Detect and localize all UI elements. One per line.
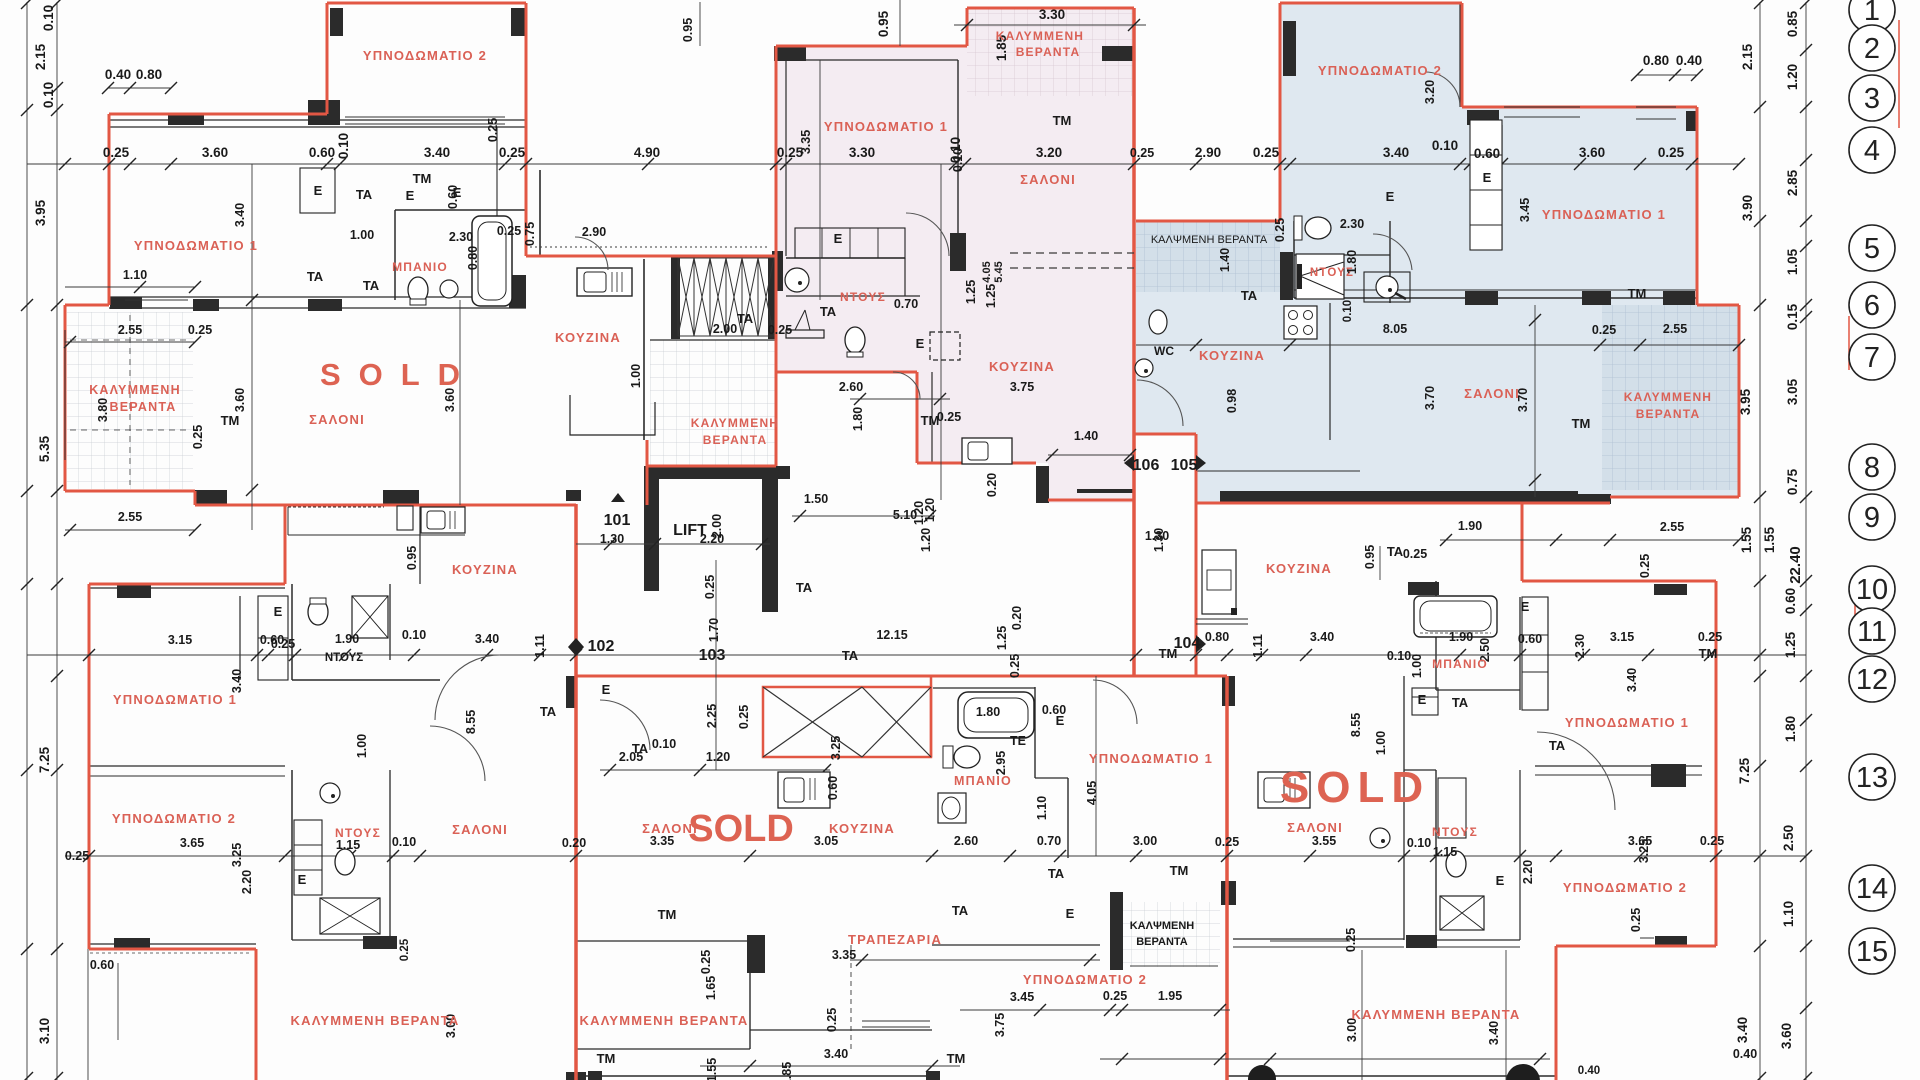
svg-text:ΥΠΝΟΔΩΜΑΤΙΟ 1: ΥΠΝΟΔΩΜΑΤΙΟ 1 <box>113 692 237 707</box>
blue closet wall <box>1501 125 1503 250</box>
svg-text:ΣΑΛΟΝΙ: ΣΑΛΟΝΙ <box>1464 386 1520 401</box>
svg-text:1.11: 1.11 <box>1251 634 1265 658</box>
svg-text:3.40: 3.40 <box>1487 1021 1501 1045</box>
svg-text:0.80: 0.80 <box>136 67 162 82</box>
svg-text:1.40: 1.40 <box>1218 248 1232 272</box>
svg-text:0.25: 0.25 <box>1253 145 1280 160</box>
svg-text:E: E <box>1496 873 1505 888</box>
svg-text:0.25: 0.25 <box>486 118 500 142</box>
veranda hatch blue strip <box>1136 222 1280 292</box>
wall u103 bath east low <box>1067 778 1069 858</box>
wall band blue S <box>1220 491 1578 502</box>
svg-text:4: 4 <box>1864 135 1880 167</box>
wall chunk blue win R <box>1663 291 1695 305</box>
svg-text:1.00: 1.00 <box>355 734 369 758</box>
svg-text:15: 15 <box>1856 936 1888 968</box>
svg-text:3.80: 3.80 <box>96 398 110 422</box>
shower blue ntous <box>1296 254 1344 299</box>
wall chunk u101 corner <box>308 100 340 125</box>
wall chunk blue S2 <box>1578 494 1611 504</box>
svg-text:0.25: 0.25 <box>825 1008 839 1032</box>
svg-text:ΤΑ: ΤΑ <box>796 580 813 595</box>
stair shaft E wall <box>768 255 777 339</box>
svg-text:ΤΜ: ΤΜ <box>221 413 240 428</box>
svg-text:2.60: 2.60 <box>954 834 978 848</box>
svg-text:3.15: 3.15 <box>168 633 192 647</box>
veranda hatch middle <box>650 340 776 466</box>
svg-text:3.05: 3.05 <box>1785 378 1800 405</box>
svg-text:6: 6 <box>1864 290 1880 322</box>
red outline pink east / corridor west <box>1132 8 1136 676</box>
svg-text:102: 102 <box>588 638 615 655</box>
wall u102 bedroom divider <box>89 765 285 767</box>
svg-text:ΤΑ: ΤΑ <box>1241 288 1258 303</box>
lift shaft SW corner <box>644 573 659 591</box>
wall u103 bedroom2 north <box>932 944 1100 946</box>
svg-text:ΚΑΛΨΜΕΝΗ: ΚΑΛΨΜΕΝΗ <box>1130 920 1195 932</box>
lift shaft west wall <box>644 479 659 591</box>
blue kitchen counter <box>1329 303 1331 440</box>
svg-text:11: 11 <box>1857 616 1887 648</box>
wall u103 salon south <box>576 940 750 942</box>
wall chunk blue TR <box>1686 111 1697 131</box>
red outline u101 veranda west <box>64 305 67 491</box>
dimension line u104 veranda 2 <box>1505 950 1507 1080</box>
svg-text:3.60: 3.60 <box>1579 145 1605 160</box>
svg-text:0.80: 0.80 <box>1205 630 1229 644</box>
svg-text:2.55: 2.55 <box>1663 322 1687 336</box>
svg-text:1.90: 1.90 <box>335 632 359 646</box>
svg-text:0.10: 0.10 <box>652 737 676 751</box>
grid bubble 14 <box>1849 865 1895 911</box>
wall kitchen east <box>643 259 645 440</box>
dimension line 3.30 top <box>954 24 1146 26</box>
svg-text:ΤΑ: ΤΑ <box>1048 866 1065 881</box>
wall chunk blue win M <box>1582 291 1611 305</box>
svg-text:2.55: 2.55 <box>118 510 142 524</box>
dimension line bottom mid <box>700 1065 960 1067</box>
wall chunk blue top <box>1467 110 1499 125</box>
svg-text:ΤΜ: ΤΜ <box>1699 646 1718 661</box>
svg-text:1.80: 1.80 <box>976 705 1000 719</box>
dimension line 4.05 <box>1095 676 1097 856</box>
svg-text:1.25: 1.25 <box>984 284 998 308</box>
red registration mark right mid <box>1848 316 1850 370</box>
svg-text:ΤΑ: ΤΑ <box>540 704 557 719</box>
door arc u103 bath <box>1093 680 1137 724</box>
svg-text:SOLD: SOLD <box>1280 763 1430 812</box>
grid bubble 1 <box>1849 0 1895 33</box>
svg-text:ΥΠΝΟΔΩΜΑΤΙΟ 2: ΥΠΝΟΔΩΜΑΤΙΟ 2 <box>1563 880 1687 895</box>
svg-text:0.85: 0.85 <box>1785 10 1800 37</box>
wall chunk u104 NE <box>1408 582 1439 595</box>
dashed beam pink salon 2 <box>1010 267 1134 269</box>
wall chunk u104 W <box>1222 676 1235 706</box>
wall chunk veranda top L <box>110 297 142 309</box>
svg-text:0.60: 0.60 <box>1042 703 1066 717</box>
red outline blue west <box>1279 3 1282 221</box>
dashed veranda TL 1 <box>70 339 190 341</box>
wall u103 salon/trapezaria <box>749 938 751 1049</box>
svg-text:ΒΕΡΑΝΤΑ: ΒΕΡΑΝΤΑ <box>1016 45 1081 59</box>
wall chunk u102 S <box>114 938 150 949</box>
wall u104 ntous2 west <box>1435 770 1437 940</box>
red registration mark right low <box>1854 600 1856 622</box>
svg-text:1.80: 1.80 <box>1783 716 1798 742</box>
closet u102b <box>294 820 322 895</box>
svg-text:5.10: 5.10 <box>893 508 917 522</box>
red outline blue veranda south <box>1610 496 1739 499</box>
wall bottom veranda u104 <box>1227 1075 1556 1077</box>
svg-text:1.10: 1.10 <box>123 268 147 282</box>
svg-text:ΜΠΑΝΙΟ: ΜΠΑΝΙΟ <box>954 774 1012 788</box>
svg-text:ΤΜ: ΤΜ <box>413 171 432 186</box>
svg-text:2.95: 2.95 <box>994 751 1008 775</box>
svg-text:ΤΑ: ΤΑ <box>632 741 649 756</box>
svg-text:8.55: 8.55 <box>464 710 478 734</box>
wall chunk blue TL <box>1283 21 1296 76</box>
svg-text:0.70: 0.70 <box>894 297 918 311</box>
door arc u102 bedroom1 <box>435 655 500 720</box>
svg-text:ΤΜ: ΤΜ <box>658 907 677 922</box>
entrance marker 104 <box>1196 635 1206 653</box>
svg-text:0.25: 0.25 <box>1638 554 1652 578</box>
dimension line 1.50 <box>792 515 935 517</box>
bathtub u101 <box>472 216 512 306</box>
dimension line u103 bottom <box>960 1009 1230 1011</box>
door arc blue bedroom2 <box>1425 72 1460 107</box>
closet E u101 <box>300 168 335 213</box>
red outline blue east <box>1696 107 1699 305</box>
dimension line 2.60 pink <box>850 398 950 400</box>
closet u104 <box>1522 597 1548 710</box>
pink bedroom1 east wall <box>957 60 959 258</box>
dimension line right outer <box>1805 2 1807 1080</box>
svg-text:2.30: 2.30 <box>449 230 473 244</box>
svg-text:ΚΑΛΥΜΜΕΝΗ ΒΕΡΑΝΤΑ: ΚΑΛΥΜΜΕΝΗ ΒΕΡΑΝΤΑ <box>1352 1007 1521 1022</box>
svg-text:ΚΑΛΨΜΕΝΗ ΒΕΡΑΝΤΑ: ΚΑΛΨΜΕΝΗ ΒΕΡΑΝΤΑ <box>1151 234 1268 246</box>
svg-text:22.40: 22.40 <box>1787 546 1804 584</box>
door arc u104 bedroom1 <box>1537 732 1615 810</box>
wall chunk veranda top R <box>193 299 219 311</box>
wall post bottom 1 <box>588 1071 602 1080</box>
svg-text:1.70: 1.70 <box>707 618 721 642</box>
wall chunk stair S <box>644 545 658 590</box>
red outline veranda west <box>646 440 649 505</box>
svg-text:1.80: 1.80 <box>851 407 865 431</box>
red outline u101 top <box>327 2 526 5</box>
svg-text:3.60: 3.60 <box>233 388 247 412</box>
red outline pink veranda west <box>966 8 969 46</box>
dashed beam pink salon 1 <box>1010 252 1134 254</box>
svg-text:ΤΑ: ΤΑ <box>820 304 837 319</box>
svg-text:0.25: 0.25 <box>703 575 717 599</box>
apartment 105 pink unit fill <box>776 8 1134 503</box>
svg-text:ΥΠΝΟΔΩΜΑΤΙΟ 1: ΥΠΝΟΔΩΜΑΤΙΟ 1 <box>1542 207 1666 222</box>
svg-text:ΚΑΛΥΜΜΕΝΗ: ΚΑΛΥΜΜΕΝΗ <box>89 383 181 397</box>
svg-text:1.20: 1.20 <box>706 750 730 764</box>
veranda hatch blue large <box>1602 305 1739 490</box>
svg-text:3.35: 3.35 <box>832 948 856 962</box>
svg-text:1.55: 1.55 <box>705 1058 719 1080</box>
svg-text:3.75: 3.75 <box>1010 380 1034 394</box>
wall chunk u104 S <box>1655 936 1687 947</box>
red registration mark right top <box>1898 20 1900 128</box>
dimension line blue 3.70 <box>1534 305 1536 497</box>
svg-text:ΤΡΑΠΕΖΑΡΙΑ: ΤΡΑΠΕΖΑΡΙΑ <box>848 932 942 947</box>
kitchen sink u103 <box>778 772 830 808</box>
wall top-left unit bedroom2 window wall <box>109 119 526 121</box>
wall u104 bedroom divider <box>1535 765 1702 767</box>
grid bubble 12 <box>1849 656 1895 702</box>
svg-text:ΥΠΝΟΔΩΜΑΤΙΟ 2: ΥΠΝΟΔΩΜΑΤΙΟ 2 <box>1318 63 1442 78</box>
wall blue bath divider <box>1294 254 1390 256</box>
red outline veranda south <box>648 465 776 468</box>
wall u102 kitchen <box>419 505 421 584</box>
svg-text:2.15: 2.15 <box>1740 43 1755 70</box>
door arc u101 bedroom1 <box>575 237 608 270</box>
toilet u103b <box>943 746 953 768</box>
svg-text:0.20: 0.20 <box>1010 606 1024 630</box>
svg-text:ΜΠΑΝΙΟ: ΜΠΑΝΙΟ <box>392 260 448 274</box>
svg-text:ΤΑ: ΤΑ <box>1452 695 1469 710</box>
door arc u102 ntous <box>600 700 650 750</box>
svg-text:ΚΑΛΥΜΜΕΝΗ: ΚΑΛΥΜΜΕΝΗ <box>1624 390 1712 404</box>
wall chunk u103 TL <box>566 676 575 708</box>
svg-text:0.15: 0.15 <box>1785 303 1800 330</box>
wall u102 bath west <box>291 584 293 680</box>
svg-text:E: E <box>453 185 462 200</box>
svg-text:0.25: 0.25 <box>271 637 295 651</box>
svg-text:0.25: 0.25 <box>65 849 89 863</box>
kitchen cabinet u104 <box>1202 550 1236 614</box>
dimension line u104 veranda 1 <box>1361 950 1363 1080</box>
svg-text:3.25: 3.25 <box>230 843 244 867</box>
svg-text:0.40: 0.40 <box>1733 1047 1757 1061</box>
wall blue bedroom2 east <box>1459 3 1461 107</box>
svg-text:E: E <box>602 682 611 697</box>
red outline u101 veranda south <box>65 490 195 493</box>
svg-text:E: E <box>834 231 843 246</box>
svg-text:WC: WC <box>1154 344 1174 358</box>
svg-text:2.90: 2.90 <box>1195 145 1221 160</box>
tub u104 bath <box>1414 596 1497 637</box>
svg-text:0.10: 0.10 <box>336 133 351 159</box>
svg-text:ΤΕ: ΤΕ <box>1010 734 1026 748</box>
sink u103 <box>938 793 966 823</box>
dimension line 0.95 top <box>899 0 901 46</box>
svg-text:ΥΠΝΟΔΩΜΑΤΙΟ 1: ΥΠΝΟΔΩΜΑΤΙΟ 1 <box>1089 751 1213 766</box>
wall u102 south <box>89 943 256 945</box>
dimension line second horizontal <box>27 654 1806 656</box>
wall chunk bedroom2 TL <box>330 8 343 36</box>
grid bubble 9 <box>1849 494 1895 540</box>
veranda hatch unit104 small <box>1122 902 1220 967</box>
veranda hatch pink top <box>967 8 1134 96</box>
svg-text:13: 13 <box>1856 762 1888 794</box>
svg-text:3.40: 3.40 <box>475 632 499 646</box>
svg-text:12.15: 12.15 <box>876 628 907 642</box>
svg-text:0.10: 0.10 <box>1407 836 1431 850</box>
red jog u103 bath <box>930 676 933 757</box>
toilet u101 <box>408 277 428 303</box>
svg-text:8.05: 8.05 <box>1383 322 1407 336</box>
svg-text:1.55: 1.55 <box>1762 526 1777 553</box>
dashed veranda TL 2 <box>70 429 190 431</box>
svg-text:0.25: 0.25 <box>1130 146 1154 160</box>
svg-text:3.65: 3.65 <box>1628 834 1652 848</box>
svg-text:0.60: 0.60 <box>1518 632 1542 646</box>
svg-text:3.70: 3.70 <box>1423 386 1437 410</box>
wall chunk u101 mid <box>308 299 342 311</box>
red boundary u102/u103 <box>574 504 578 1080</box>
wall u104 ntous east <box>1403 676 1405 940</box>
svg-text:0.80: 0.80 <box>466 246 480 270</box>
svg-text:3.40: 3.40 <box>1383 145 1409 160</box>
dimension line 1.40 pink <box>1048 454 1134 456</box>
svg-text:ΚΟΥΖΙΝΑ: ΚΟΥΖΙΝΑ <box>1266 561 1332 576</box>
svg-text:E: E <box>1418 692 1427 707</box>
svg-text:0.25: 0.25 <box>737 705 751 729</box>
svg-text:2.50: 2.50 <box>1781 825 1796 851</box>
lift shaft east wall <box>762 479 778 612</box>
svg-text:ΜΠΑΝΙΟ: ΜΠΑΝΙΟ <box>1432 657 1488 671</box>
dashed line 1.65 <box>850 945 852 1049</box>
grid bubble 6 <box>1849 282 1895 328</box>
closet u104b <box>1438 778 1466 838</box>
door sill u104 kitchen <box>1196 618 1248 620</box>
red outline pink veranda top <box>967 7 1134 10</box>
svg-text:0.75: 0.75 <box>1785 468 1800 495</box>
svg-text:ΚΟΥΖΙΝΑ: ΚΟΥΖΙΝΑ <box>452 562 518 577</box>
svg-text:7.25: 7.25 <box>1737 757 1752 784</box>
dimension line 8.05 row <box>1136 344 1739 346</box>
svg-text:0.25: 0.25 <box>399 938 411 961</box>
svg-text:0.10: 0.10 <box>1387 649 1411 663</box>
grid bubble 2 <box>1849 25 1895 71</box>
wall post bottom 2 <box>926 1071 940 1080</box>
svg-text:0.95: 0.95 <box>681 18 695 42</box>
svg-text:E: E <box>406 188 415 203</box>
svg-text:ΤΑ: ΤΑ <box>952 903 969 918</box>
svg-text:0.60: 0.60 <box>309 145 335 160</box>
svg-text:0.95: 0.95 <box>1363 545 1377 569</box>
svg-text:10: 10 <box>1856 574 1888 606</box>
lift shaft top wall <box>644 466 790 479</box>
pink unit inner wall west <box>785 60 787 256</box>
dimension line left outer <box>26 2 28 1080</box>
wall u103 bath jog <box>1035 777 1068 779</box>
wall u104 veranda W <box>1110 892 1123 970</box>
svg-text:0.95: 0.95 <box>405 546 419 570</box>
svg-text:0.25: 0.25 <box>1658 145 1685 160</box>
door arc blue kitchen <box>1137 380 1183 426</box>
sink blue wc <box>1135 359 1153 377</box>
dimension line main horizontal <box>27 163 1739 165</box>
stove blue <box>1284 306 1317 339</box>
grid bubble 8 <box>1849 444 1895 490</box>
svg-text:3.45: 3.45 <box>1518 198 1532 222</box>
svg-text:ΤΜ: ΤΜ <box>1170 863 1189 878</box>
wall bedroom1 south <box>109 296 526 298</box>
wall u104 veranda top 2 <box>1437 946 1520 948</box>
sink u104 <box>1370 828 1390 848</box>
svg-text:E: E <box>1521 599 1530 614</box>
red outline u104 veranda east <box>1555 946 1558 1080</box>
dimension line u102 veranda <box>87 949 89 1080</box>
svg-text:1.40: 1.40 <box>1074 429 1098 443</box>
svg-text:ΤΑ: ΤΑ <box>307 269 324 284</box>
svg-text:ΚΑΛΥΜΜΕΝΗ: ΚΑΛΥΜΜΕΝΗ <box>691 416 779 430</box>
toilet u102 <box>308 599 328 625</box>
svg-text:0.25: 0.25 <box>699 950 713 974</box>
red outline u102 top <box>89 583 285 586</box>
wall blue ntous west <box>1293 221 1295 298</box>
svg-text:0.60: 0.60 <box>90 958 114 972</box>
svg-text:ΚΟΥΖΙΝΑ: ΚΟΥΖΙΝΑ <box>1199 348 1265 363</box>
wall chunk pink S <box>1036 466 1049 503</box>
wall bathroom north <box>395 209 526 211</box>
svg-text:2.85: 2.85 <box>1785 169 1800 196</box>
dimension line 0.40-0.80 <box>108 87 171 89</box>
wall u102 shower east <box>389 584 391 660</box>
svg-text:3.20: 3.20 <box>1423 80 1437 104</box>
svg-text:103: 103 <box>699 647 726 664</box>
sink blue ntous <box>1364 272 1410 302</box>
svg-text:1.00: 1.00 <box>1374 731 1388 755</box>
blue kitchen counter low <box>1196 470 1360 472</box>
svg-text:0.75: 0.75 <box>523 222 537 246</box>
svg-text:ΚΟΥΖΙΝΑ: ΚΟΥΖΙΝΑ <box>555 330 621 345</box>
svg-text:2.90: 2.90 <box>582 225 606 239</box>
svg-text:E: E <box>274 604 283 619</box>
svg-text:0.25: 0.25 <box>1273 218 1287 242</box>
shower u102b <box>320 898 380 934</box>
door arc pink ntous <box>893 372 920 399</box>
wall chunk u104 S2 <box>1406 935 1437 948</box>
svg-text:ΤΜ: ΤΜ <box>1572 416 1591 431</box>
svg-text:0.25: 0.25 <box>1698 630 1722 644</box>
red outline u103 top <box>576 675 1196 678</box>
svg-text:5: 5 <box>1864 233 1880 265</box>
svg-text:0.25: 0.25 <box>1344 928 1358 952</box>
svg-text:ΤΜ: ΤΜ <box>1159 646 1178 661</box>
dimension line 2.55 <box>65 341 195 343</box>
svg-text:0.80: 0.80 <box>1643 53 1669 68</box>
svg-text:ΤΜ: ΤΜ <box>597 1051 616 1066</box>
red outline u104 top east part <box>1522 580 1716 583</box>
svg-text:1.55: 1.55 <box>1739 526 1754 553</box>
wall u104 ntous2 east <box>1519 770 1521 940</box>
svg-text:105: 105 <box>1171 457 1198 474</box>
boiler pink dashed <box>930 332 960 360</box>
svg-text:1.30: 1.30 <box>600 532 624 546</box>
svg-text:ΤΜ: ΤΜ <box>947 1051 966 1066</box>
svg-text:0.60: 0.60 <box>826 776 840 800</box>
svg-text:0.60: 0.60 <box>1783 588 1798 614</box>
svg-text:E: E <box>916 336 925 351</box>
svg-text:1.20: 1.20 <box>1785 64 1800 90</box>
svg-text:ΤΑ: ΤΑ <box>842 648 859 663</box>
svg-text:ΤΑ: ΤΑ <box>363 278 380 293</box>
grid bubble 13 <box>1849 754 1895 800</box>
svg-text:ΒΕΡΑΝΤΑ: ΒΕΡΑΝΤΑ <box>1636 407 1701 421</box>
dimension line 2.55 low <box>65 529 195 531</box>
wall chunk pink W <box>772 251 783 291</box>
svg-text:1.80: 1.80 <box>1345 250 1359 274</box>
svg-text:E: E <box>1066 906 1075 921</box>
wall u104 veranda top 1 <box>1233 938 1404 940</box>
